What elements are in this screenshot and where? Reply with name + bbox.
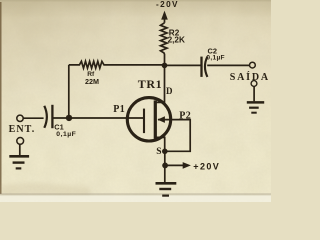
svg-text:D: D <box>166 86 173 96</box>
svg-text:22M: 22M <box>85 77 99 86</box>
svg-text:2,2K: 2,2K <box>168 36 185 45</box>
svg-text:TR1: TR1 <box>138 77 162 91</box>
svg-text:S: S <box>156 147 161 157</box>
svg-text:ENT.: ENT. <box>9 124 36 135</box>
svg-text:C1: C1 <box>54 122 63 131</box>
svg-text:0,1µF: 0,1µF <box>206 55 225 62</box>
svg-text:-20V: -20V <box>156 0 179 9</box>
svg-text:0,1µF: 0,1µF <box>56 131 76 138</box>
svg-text:P2: P2 <box>179 110 191 121</box>
svg-text:SAÍDA: SAÍDA <box>230 71 270 83</box>
svg-text:+20V: +20V <box>193 161 220 171</box>
svg-text:P1: P1 <box>113 104 125 115</box>
